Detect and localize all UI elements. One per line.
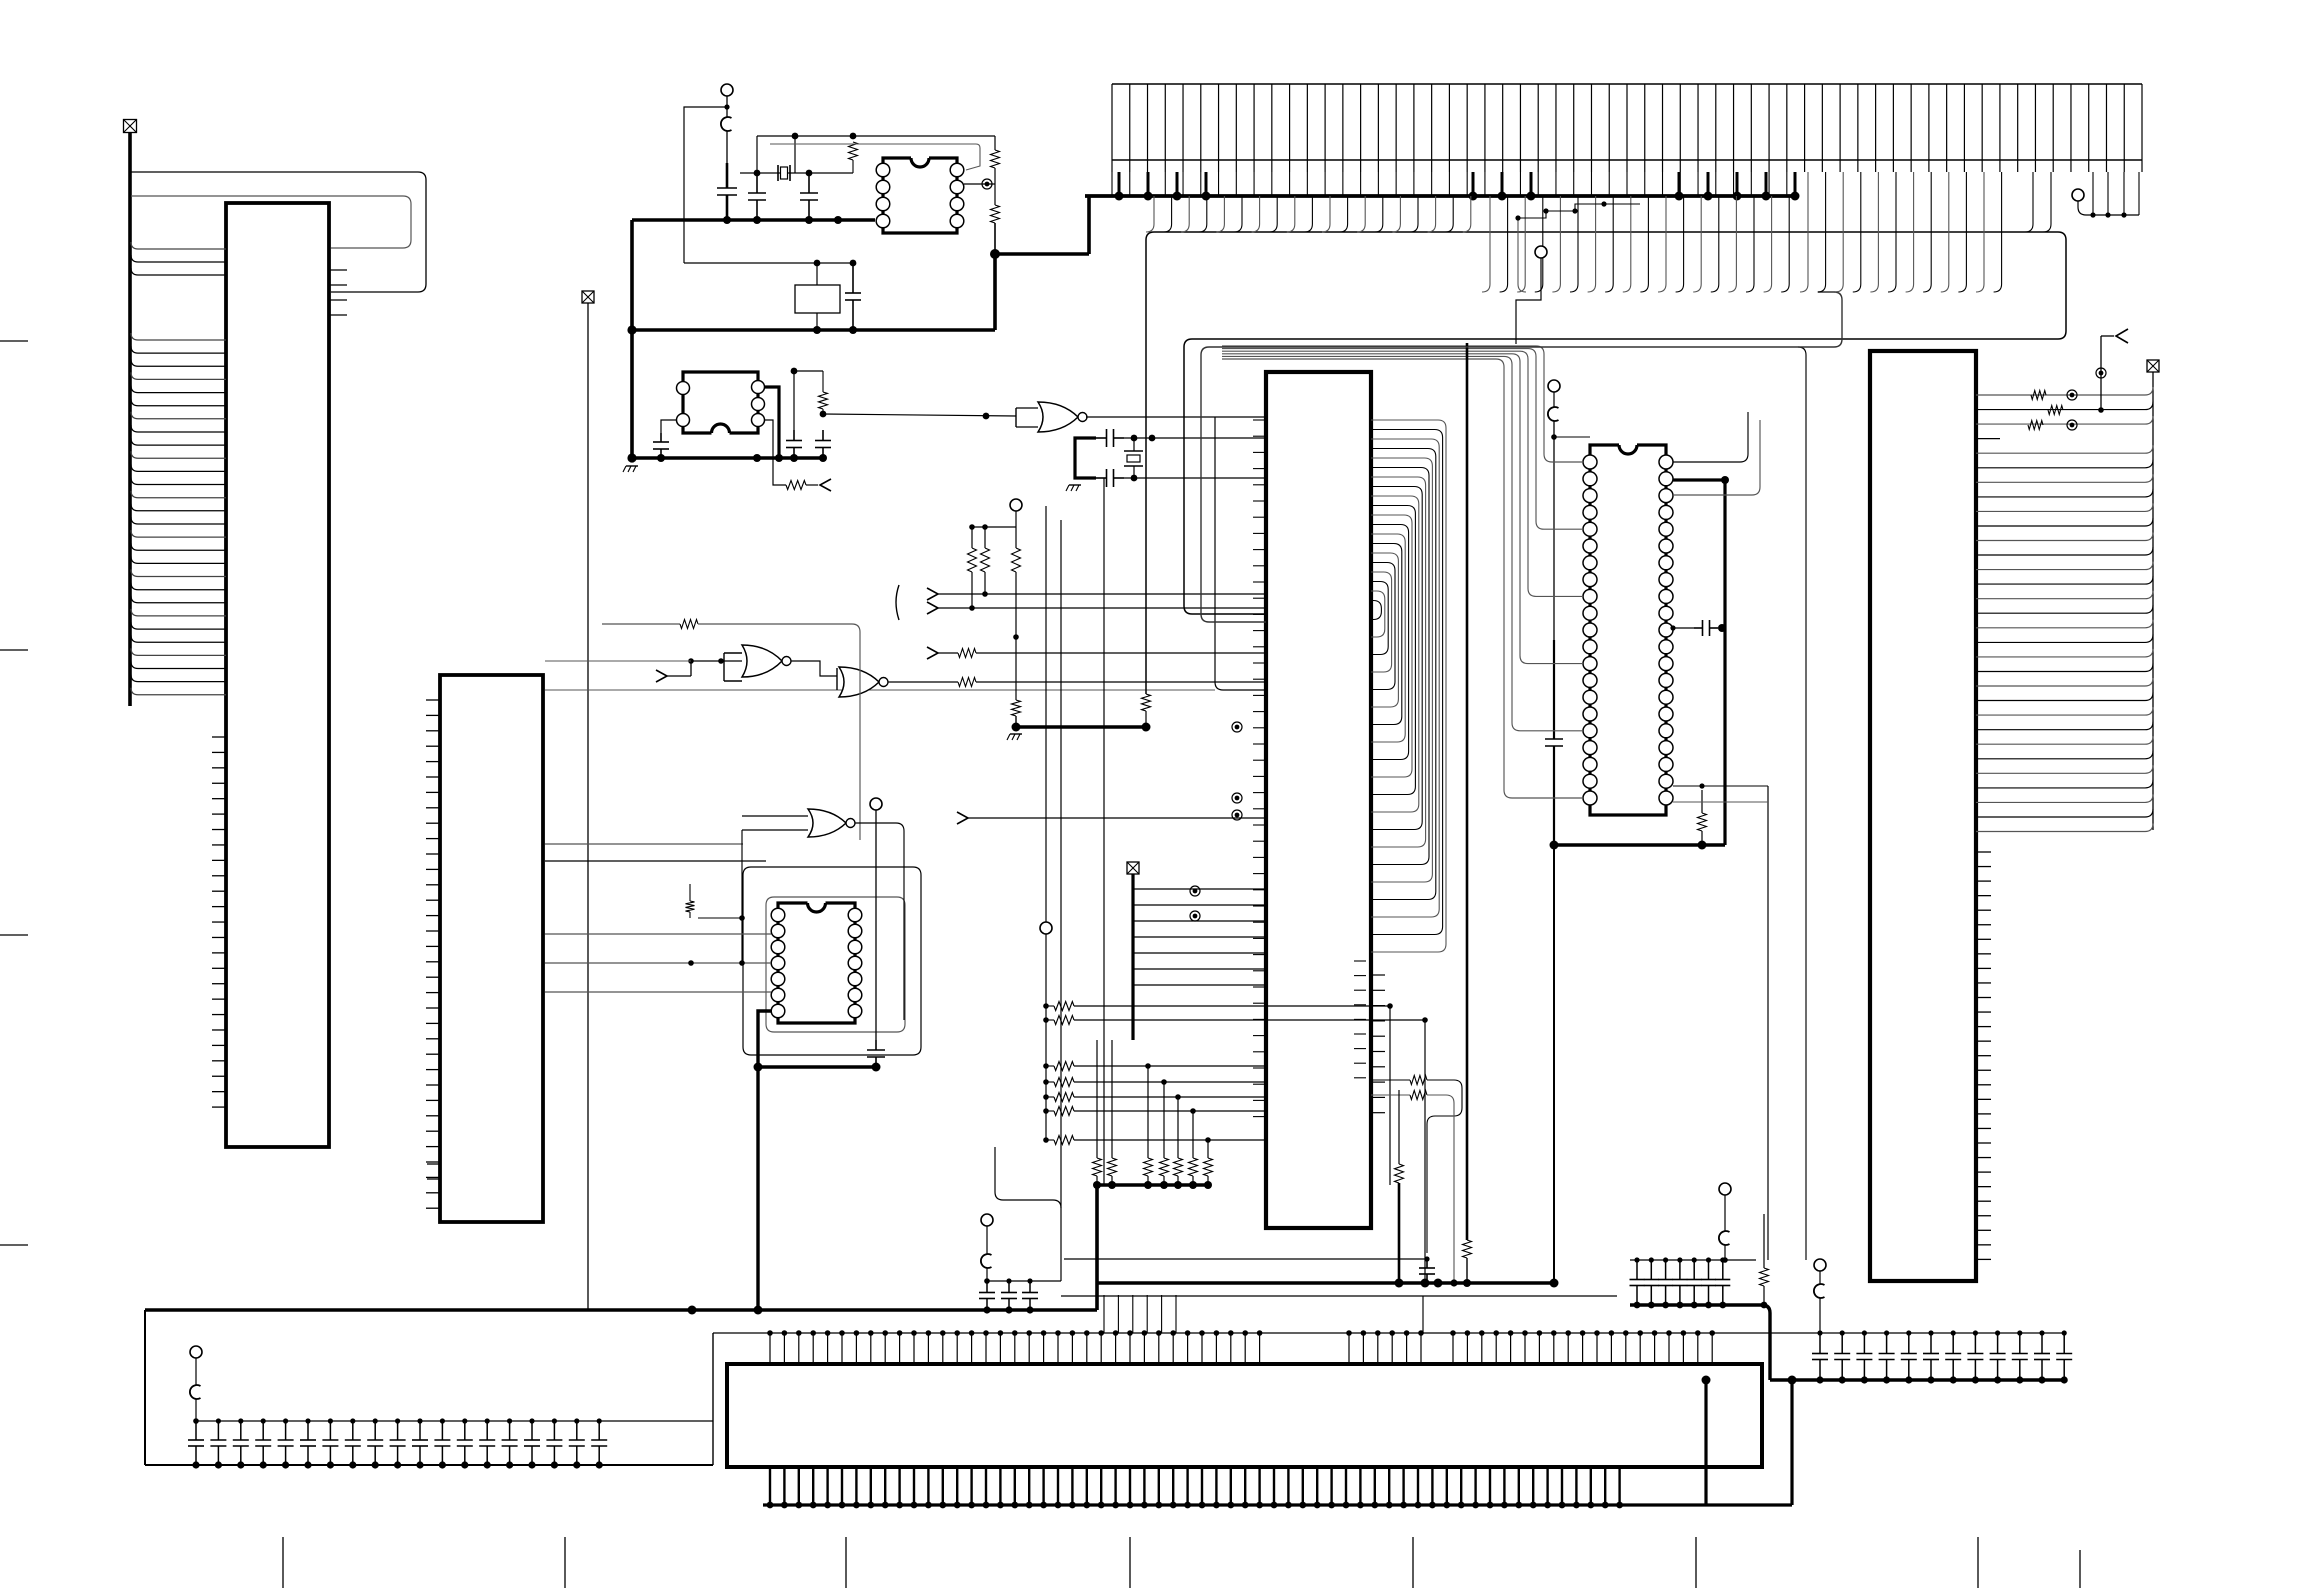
wire DIP pin802: [1673, 801, 1768, 803]
thick stub W4: [1075, 438, 1096, 478]
connector CN5 (bottom long): [727, 1364, 1762, 1467]
brace mark: [896, 585, 899, 620]
clip TP6: [981, 1254, 992, 1268]
wire U1 right pin2: [964, 183, 995, 185]
thick riser W16: [1704, 1380, 1707, 1505]
resistor R15: [1012, 700, 1021, 716]
wire fan X3-IC1: [1133, 874, 1266, 1040]
wire C12 cont: [1553, 845, 1555, 1283]
capacitor C11: [1096, 469, 1124, 487]
terminal t2: [2067, 420, 2077, 430]
resistor R4: [991, 205, 1000, 223]
thick wire W9: [1673, 476, 1729, 845]
wire bus-to-CN1 return route (inner): [131, 196, 411, 248]
connector pin J3: [1010, 499, 1022, 511]
capacitor C1: [717, 163, 737, 220]
capacitor C7: [786, 430, 802, 458]
CN5 top pins: [713, 1295, 2064, 1364]
capacitor C10: [1096, 429, 1124, 447]
input bracket U3: [724, 653, 742, 681]
clip TP2: [1548, 407, 1559, 421]
oscillator IC U2: [677, 372, 765, 433]
capacitor C3: [748, 173, 766, 220]
wire rows resistor ladder: [1043, 1062, 1266, 1145]
resistor R21: [1395, 1090, 1404, 1283]
signal arrow A2: [656, 670, 667, 682]
wire merges into bus A: [1146, 172, 2051, 232]
connector pin J5: [1548, 380, 1560, 392]
thick bus W6: [1097, 1183, 1208, 1187]
terminal mark: [982, 179, 992, 189]
wire R3-R4: [994, 168, 996, 205]
wire sig4: [968, 817, 1266, 819]
wire J11b: [984, 1268, 1061, 1284]
clip TP1: [721, 117, 732, 131]
page fold tick marks: [0, 341, 2080, 1588]
wire J5b: [1551, 421, 1590, 640]
capacitor row CR3: [1812, 1330, 2072, 1383]
wire bus sig1: [938, 593, 1266, 595]
resistor R3: [991, 150, 1000, 168]
thick riser W7: [1095, 1185, 1099, 1310]
capacitor row CR4: [979, 1278, 1038, 1313]
thick node W2: [990, 196, 1089, 330]
wire J2 down: [875, 810, 877, 1040]
terminal marks IC3-left: [1190, 722, 1242, 921]
wire R7 right: [976, 681, 1266, 683]
capacitor C4: [800, 173, 818, 220]
connector CN3 (top comb): [1112, 84, 2142, 172]
IC IC1 (large center VLSI): [1266, 372, 1371, 1228]
wire netA-C3: [756, 136, 758, 173]
signal arrow A1: [806, 479, 831, 491]
clip TP3: [190, 1385, 201, 1399]
thick bus W19: [1702, 1376, 2065, 1385]
net X4 terminal: [2147, 360, 2159, 372]
capacitor C9: [867, 1040, 885, 1067]
box CN4 outline: [145, 1310, 713, 1465]
wire long V3: [1103, 478, 1105, 1185]
connector CN1 (left tall block): [226, 203, 329, 1147]
wire fan IC3-right margin: [1976, 387, 2153, 832]
IC3 right bare stubs: [1976, 852, 1991, 1259]
signal arrow A6: [957, 812, 968, 824]
signal arrow A3: [927, 588, 938, 600]
capacitor C12: [1545, 640, 1563, 845]
wire thin y1259: [1064, 1258, 1427, 1260]
resistor R9: [686, 884, 743, 918]
wire A2 to U3: [667, 658, 742, 676]
wire J1b: [724, 104, 729, 163]
ground G2: [1066, 485, 1081, 491]
connector pin J11: [981, 1214, 993, 1254]
resistor R8: [680, 620, 698, 629]
ground G1: [623, 466, 638, 472]
bus net B: [1201, 292, 1842, 622]
thick bus W5: [1012, 711, 1151, 732]
thick bus W14 (bottom-left rail): [145, 1306, 1097, 1315]
thick riser W17: [1790, 1380, 1793, 1505]
wire feeds U5 left: [545, 934, 771, 992]
CN3 right pins: [2093, 172, 2139, 215]
wire long net y690: [545, 689, 1215, 691]
supply rail W1 (osc A): [632, 216, 875, 224]
net X3 terminal: [1127, 862, 1139, 874]
thick bus W18: [1630, 1305, 1770, 1380]
wire hook: [995, 1147, 1061, 1281]
crystal X5: [1124, 438, 1143, 478]
wire J5: [1553, 392, 1555, 407]
wire U3-U4: [791, 661, 837, 676]
capacitor C14: [1419, 1256, 1435, 1283]
thick bus W20: [1097, 1279, 1559, 1288]
clip TP5: [1814, 1284, 1825, 1298]
resistor R2: [849, 142, 858, 173]
resistor R14: [1142, 694, 1151, 711]
resistor R18: [2048, 406, 2104, 415]
wire res net1: [1371, 1076, 1462, 1254]
staircase junctions: [1515, 201, 1640, 220]
capacitor C5: [845, 263, 861, 330]
CN1 lower bare pin stubs: [212, 737, 226, 1107]
wire long net y661: [545, 660, 691, 662]
IC IC2 (DIP, right-center): [1583, 445, 1673, 815]
IC1 left pin stubs: [1253, 420, 1266, 1117]
connector pin J1: [721, 84, 733, 96]
connector pin J10: [1814, 1259, 1826, 1284]
wire feeds routes: [545, 844, 766, 861]
wire U6 out: [855, 823, 904, 1020]
connector pin J8: [190, 1346, 202, 1385]
resistor R5: [819, 371, 828, 414]
nor gate U6: [808, 809, 855, 837]
wire res net2: [1371, 1091, 1458, 1287]
wire route rect B: [766, 897, 905, 1032]
wire DIP-caps drop1: [1673, 786, 1768, 1260]
wire gry1b: [698, 624, 860, 840]
wire branch to crystal square: [684, 107, 727, 263]
net X2 terminal: [582, 291, 594, 303]
nor gate U3: [742, 645, 791, 677]
wire J4 down: [1045, 506, 1047, 1140]
wire J3 net: [969, 511, 1016, 548]
bus net A: [1146, 232, 2066, 694]
wire bundle IC2-left: [1222, 346, 1583, 798]
connector pin J4: [1040, 922, 1052, 934]
bus B1 (left vertical supply bus): [128, 133, 132, 706]
wire net to NOR: [823, 413, 1016, 420]
wire bundle bus-B1 to CN1 pins: [131, 242, 226, 695]
wire route rect A: [743, 867, 921, 1055]
resistor R17: [2031, 391, 2046, 400]
connector pin J7: [1516, 246, 1547, 344]
wire bundle IC1-right loop bus: [1371, 420, 1446, 952]
capacitor C13: [1670, 620, 1726, 636]
resistor R7: [958, 678, 976, 687]
wire sig3: [938, 652, 1266, 654]
wire J1 down: [726, 96, 728, 117]
wire long V2: [1060, 520, 1062, 1208]
CN1 right-side pin stubs: [329, 270, 347, 315]
resistor R20: [1760, 1214, 1769, 1308]
capacitor C6: [653, 420, 677, 458]
CN2 extra stubs: [427, 1164, 441, 1179]
CN5 bottom pins and bus W15: [763, 1467, 1792, 1508]
wire netA-x795: [794, 136, 796, 173]
clip TP4: [1719, 1231, 1730, 1245]
connector pin J2: [870, 798, 882, 810]
wire arrow net: [2096, 336, 2114, 410]
wire R12 down: [1013, 572, 1019, 700]
terminal t1: [2067, 390, 2077, 400]
supply rail W3 (y=330): [627, 325, 995, 334]
connector pin J9: [1719, 1183, 1731, 1231]
CN2 left pin stubs: [426, 700, 440, 1208]
resistor R12: [1012, 548, 1021, 572]
CN3 thin pins: [1112, 172, 1787, 196]
wire J8b: [193, 1399, 199, 1424]
IC IC3 (right tall block): [1870, 351, 1976, 1281]
power net X1 terminal: [124, 120, 137, 133]
nor gate U7: [1038, 402, 1087, 432]
resistor R19: [2028, 421, 2043, 430]
input bracket U4: [836, 668, 838, 690]
line net-B (crystal row): [740, 170, 853, 177]
capacitor row CR2: [1630, 1257, 1757, 1308]
ground G3: [1007, 734, 1022, 740]
wire X2 vertical net: [587, 303, 589, 1310]
signal arrow A4: [927, 602, 938, 614]
wire U2 net right: [791, 368, 823, 430]
CN3 thick pins: [1115, 172, 1800, 201]
ceramic resonator X4: [795, 263, 840, 330]
wire U2 out thick: [764, 387, 779, 458]
wire bus-to-CN1 return route (outer): [131, 172, 426, 292]
rail W10: [2152, 372, 2154, 830]
wire thin y1292: [1061, 1296, 1617, 1333]
wire U2 pin to arrow: [764, 420, 786, 485]
resistor R6: [786, 481, 806, 490]
resistor bank RB1: [1093, 1040, 1213, 1189]
wire J9b: [1722, 1245, 1728, 1263]
wire netC: [770, 144, 980, 170]
wire J10b: [1819, 1298, 1821, 1333]
thick net U5-down: [754, 1011, 881, 1310]
resistor R11: [981, 548, 990, 572]
wire merges into bus B: [1482, 172, 2002, 292]
wire U7 drop: [1215, 417, 1266, 690]
nor gate U4: [839, 667, 888, 697]
wire DIP right elbow2: [1673, 420, 1760, 495]
wire gry1: [602, 623, 680, 625]
line net-A: [757, 133, 995, 140]
crystal X3: [778, 165, 790, 181]
wire netA right drop: [994, 136, 996, 150]
thick bus W13: [1085, 194, 1797, 198]
wire W1-left drop: [630, 220, 634, 330]
thick vertical W12: [1463, 343, 1472, 1287]
capacitor C8: [815, 411, 831, 458]
wire R11 down: [982, 572, 988, 597]
wire bus sig2: [938, 607, 1266, 609]
connector pin J6: [2072, 189, 2139, 218]
wire DIP right elbow1: [1673, 412, 1748, 462]
wire X5 nets to IC1: [1124, 435, 1266, 482]
resistor R10: [968, 548, 977, 572]
oscillator IC U5: [771, 903, 862, 1023]
wire R10 down: [969, 572, 975, 611]
wire DIP-caps drop2: [1798, 347, 1806, 1260]
wire rows upper resistor pair: [1043, 1002, 1428, 1282]
wire U7 out: [1086, 416, 1266, 418]
resistor R13: [958, 649, 976, 658]
oscillator IC U1: [876, 158, 964, 233]
input lines U6: [739, 816, 808, 963]
thick bus W8 (DIP bottom): [1550, 841, 1726, 850]
wire R4 down: [994, 223, 996, 252]
line crystal-square top: [684, 260, 856, 267]
signal arrow A7: [2116, 329, 2128, 343]
resistor R16: [1673, 783, 1707, 845]
signal arrow A5: [927, 647, 938, 659]
capacitor row CR1: [188, 1418, 713, 1468]
wire staircase drop: [1518, 218, 1526, 292]
oscillator circuit rail: [627, 330, 827, 463]
connector CN2 (second tall block): [440, 675, 543, 1222]
IC1 right lower pin stubs: [1354, 961, 1385, 1113]
input bracket U7: [1016, 408, 1038, 427]
wire U4 out: [888, 681, 958, 683]
